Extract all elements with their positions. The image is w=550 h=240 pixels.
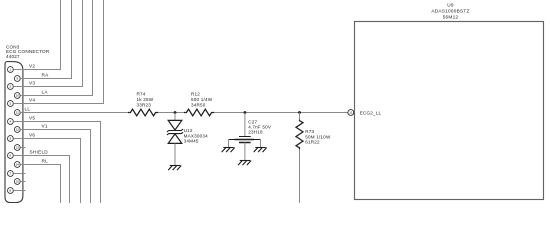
wire stub pin 7	[13, 173, 25, 175]
svg-text:U9: U9	[447, 3, 454, 8]
wire R74 to R12	[158, 112, 184, 114]
wire V6	[13, 139, 80, 204]
pin 8 (nc)	[7, 188, 13, 194]
node junction at U12 tap	[174, 111, 177, 114]
svg-text:3: 3	[10, 102, 12, 106]
svg-text:9: 9	[16, 77, 18, 81]
resistor R73	[296, 120, 331, 149]
wire C27 left branch	[228, 140, 230, 148]
wire V1	[20, 130, 90, 204]
node junction at R73 tap	[298, 111, 301, 114]
node V2 label	[29, 64, 35, 69]
wire stub pin 13	[20, 147, 25, 149]
wire RA	[20, 0, 71, 79]
wire bus to C27	[244, 113, 246, 137]
node RL label	[42, 159, 49, 164]
wire C27 right branch	[260, 140, 262, 148]
svg-text:6: 6	[10, 154, 12, 158]
svg-text:V1: V1	[42, 124, 48, 129]
pin 9 (RA)	[14, 76, 20, 82]
svg-text:34R50: 34R50	[191, 102, 206, 107]
chassis ground left of C27	[222, 148, 235, 153]
resistor R12	[184, 91, 214, 116]
svg-text:RL: RL	[42, 159, 49, 164]
svg-text:R12: R12	[191, 91, 200, 96]
pin 15 (nc)	[14, 179, 20, 185]
wire RL	[20, 165, 60, 204]
svg-text:13: 13	[16, 146, 20, 150]
node RA label	[42, 73, 50, 78]
pin 1 (V2)	[7, 67, 13, 73]
wire LL from connector to R74	[20, 112, 128, 114]
svg-text:61R22: 61R22	[305, 140, 320, 145]
svg-text:RA: RA	[42, 73, 50, 78]
svg-text:LL: LL	[25, 107, 31, 112]
svg-text:14: 14	[16, 163, 20, 167]
node V4 label	[29, 98, 35, 103]
svg-text:8: 8	[10, 189, 12, 193]
svg-text:LA: LA	[42, 90, 49, 95]
wire V4	[13, 0, 103, 104]
wire stub pin 15	[20, 181, 25, 183]
pin 14 (RL)	[14, 162, 20, 168]
svg-text:V6: V6	[29, 133, 35, 138]
node junction at C27 tap	[244, 111, 247, 114]
wire U12 to ground	[174, 143, 176, 165]
svg-text:V3: V3	[29, 81, 35, 86]
svg-text:56M12: 56M12	[443, 14, 459, 19]
pin 6 (SHIELD)	[7, 153, 13, 159]
svg-text:SHIELD: SHIELD	[30, 150, 49, 155]
svg-text:12: 12	[16, 128, 20, 132]
node V1 label	[42, 124, 48, 129]
chassis ground under C27	[238, 161, 251, 166]
svg-text:U12: U12	[184, 128, 193, 133]
wire LA	[20, 0, 92, 96]
svg-text:ADAS1000BSTZ: ADAS1000BSTZ	[431, 9, 469, 14]
svg-text:V4: V4	[29, 98, 35, 103]
wire bus to R73	[299, 113, 301, 121]
node V6 label	[29, 133, 35, 138]
node V3 label	[29, 81, 35, 86]
wire R12 to U9 pin	[214, 112, 348, 114]
resistor R74	[128, 91, 158, 116]
TVS diode U12	[167, 120, 208, 143]
svg-text:MAX30034: MAX30034	[184, 133, 209, 138]
node SHIELD label	[30, 150, 49, 155]
svg-text:44027: 44027	[6, 54, 20, 59]
pin 10 (LA)	[14, 93, 20, 99]
chassis ground right of C27	[254, 148, 267, 153]
svg-text:1: 1	[10, 68, 12, 72]
IC U9 box	[355, 22, 544, 200]
svg-text:34M45: 34M45	[184, 139, 199, 144]
U9 pin 11 circle	[348, 110, 354, 116]
svg-text:V2: V2	[29, 64, 35, 69]
IC U9 title	[431, 3, 469, 20]
node V5 label	[29, 116, 35, 121]
node LL label	[25, 107, 31, 112]
pin 2 (V3)	[7, 84, 13, 90]
wire V3	[13, 0, 82, 87]
svg-text:11: 11	[16, 111, 19, 115]
pin 12 (V1)	[14, 127, 20, 133]
connector CON3 title text	[6, 45, 50, 60]
pin 7 (nc)	[7, 171, 13, 177]
pin 5 (V6)	[7, 136, 13, 142]
node ECG2_LL label	[360, 110, 382, 115]
svg-text:15: 15	[16, 180, 20, 184]
svg-text:11: 11	[349, 111, 352, 115]
node LA label	[42, 90, 49, 95]
connector CON3 body	[5, 62, 23, 203]
pin 4 (V5)	[7, 119, 13, 125]
wire stub pin 8	[13, 190, 25, 192]
svg-text:4: 4	[10, 120, 12, 124]
wire V2	[13, 0, 60, 70]
svg-text:500 1/4W: 500 1/4W	[191, 97, 213, 102]
wire SHIELD	[13, 156, 69, 204]
svg-text:7: 7	[10, 172, 12, 176]
svg-text:V5: V5	[29, 116, 35, 121]
svg-text:10: 10	[16, 94, 20, 98]
svg-text:R74: R74	[137, 91, 146, 96]
wire C27 to bottom ground	[244, 143, 246, 161]
svg-text:ECG2_LL: ECG2_LL	[360, 110, 382, 115]
svg-text:23H18: 23H18	[248, 129, 263, 134]
svg-text:5: 5	[10, 137, 12, 141]
capacitor C27	[229, 119, 272, 142]
pin 3 (V4)	[7, 101, 13, 107]
wire R73 to bottom edge	[299, 149, 301, 203]
pin 11 (LL)	[14, 110, 20, 116]
chassis ground under U12	[168, 166, 181, 171]
svg-text:1k 25W: 1k 25W	[137, 97, 154, 102]
svg-text:33R23: 33R23	[137, 102, 152, 107]
pin 13 (nc)	[14, 145, 20, 151]
svg-text:2: 2	[10, 85, 12, 89]
wire bus to U12	[174, 113, 176, 121]
wire V5	[13, 122, 100, 204]
